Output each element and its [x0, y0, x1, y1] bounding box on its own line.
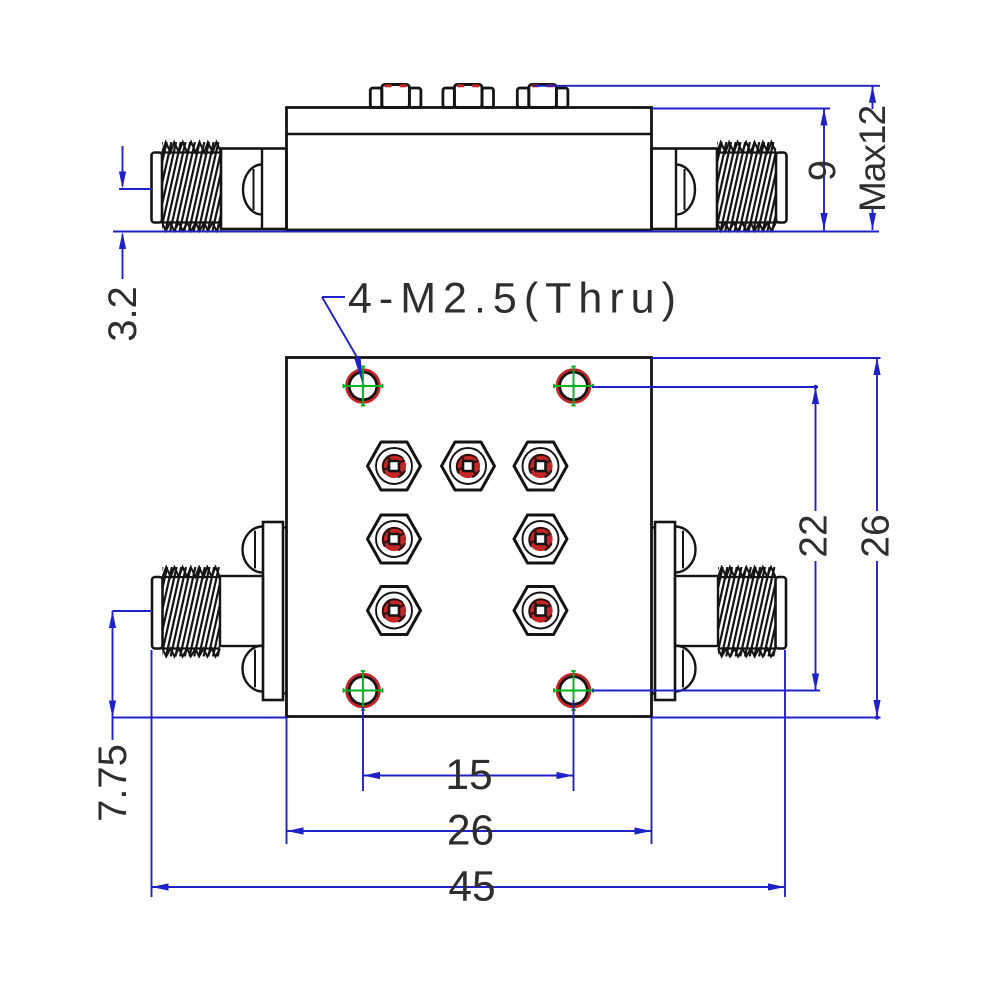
svg-text:4-M2.5(Thru): 4-M2.5(Thru)	[348, 275, 683, 323]
screw row2 right	[514, 515, 567, 563]
dim 15	[363, 700, 574, 799]
blue baseline of bottom view	[113, 717, 287, 719]
screw row2 left	[368, 515, 421, 563]
screw row3 right	[514, 587, 567, 635]
mounting hole top-right	[557, 370, 590, 403]
dim 7.75	[91, 611, 152, 822]
blue baseline of top view	[113, 231, 879, 233]
mounting hole top-left	[347, 370, 380, 403]
top view: right SMA dome	[676, 165, 695, 215]
bottom view: left SMA flange	[263, 522, 283, 700]
dim Max12	[533, 86, 893, 230]
svg-text:45: 45	[448, 864, 495, 911]
dim 45	[152, 650, 786, 911]
bottom view: body	[287, 358, 652, 717]
svg-text:15: 15	[445, 752, 492, 799]
mounting hole bottom-left	[347, 674, 380, 707]
bottom view: right SMA cap	[776, 577, 787, 649]
svg-text:7.75: 7.75	[91, 744, 135, 822]
top view: left SMA dome	[243, 165, 262, 215]
bottom view: right SMA nut	[675, 576, 718, 646]
mounting hole bottom-right	[557, 674, 590, 707]
dim 26 bottom	[287, 718, 652, 855]
screw row1 left	[368, 442, 421, 490]
svg-text:3.2: 3.2	[101, 286, 145, 342]
svg-text:9: 9	[802, 160, 844, 181]
label 4-M2.5(Thru) with leader	[322, 275, 683, 384]
top view: left SMA cap	[152, 153, 163, 223]
bottom view: left SMA cap	[152, 577, 163, 649]
bottom view: right SMA flange	[655, 522, 675, 700]
dim 22	[592, 385, 836, 691]
svg-text:26: 26	[855, 514, 898, 557]
top view: right SMA cap	[776, 153, 787, 223]
bottom view: left SMA nut	[220, 576, 263, 646]
top view: lid line	[287, 133, 652, 135]
screw row1 right	[514, 442, 567, 490]
screw row3 left	[368, 587, 421, 635]
top view: body	[287, 108, 652, 231]
svg-text:22: 22	[793, 514, 836, 557]
dim 26 right	[652, 358, 898, 720]
top view: nut 3 on lid	[517, 88, 529, 108]
bottom view: left SMA domes	[242, 527, 263, 573]
bottom view: right SMA domes	[675, 527, 695, 573]
top view: nut 1 on lid	[370, 88, 382, 108]
svg-text:26: 26	[447, 808, 494, 855]
svg-text:Max12: Max12	[852, 106, 893, 212]
top view: left SMA connector nut+flange	[221, 149, 287, 230]
screw row1 middle	[442, 442, 495, 490]
dim 9	[652, 109, 845, 232]
dim 3.2	[101, 146, 152, 342]
top view: right SMA connector nut+flange	[652, 149, 718, 230]
top view: nut 2 on lid	[443, 88, 455, 108]
